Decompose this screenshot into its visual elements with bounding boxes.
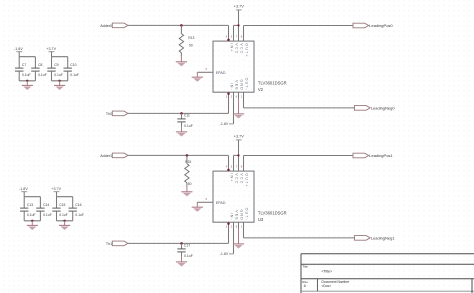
svg-text:TLV3601DSGR: TLV3601DSGR	[258, 210, 287, 215]
svg-text:0.1uF: 0.1uF	[54, 73, 63, 77]
svg-text:LeadingPos1: LeadingPos1	[369, 153, 393, 158]
svg-text:-1.8V: -1.8V	[19, 187, 28, 191]
svg-text:0.1uF: 0.1uF	[27, 213, 36, 217]
svg-text:-1.8V: -1.8V	[220, 252, 229, 256]
svg-text:0.1uF: 0.1uF	[43, 213, 52, 217]
svg-text:C16: C16	[75, 203, 81, 207]
svg-text:0.1uF: 0.1uF	[38, 73, 47, 77]
svg-text:OUT-: OUT-	[245, 208, 249, 221]
svg-text:Title: Title	[302, 265, 308, 269]
svg-text:EPAD: EPAD	[216, 71, 226, 75]
svg-text:C15: C15	[59, 203, 65, 207]
svg-text:LeadingNeg1: LeadingNeg1	[371, 235, 396, 240]
svg-text:IN+: IN+	[230, 43, 234, 52]
svg-text:C8: C8	[38, 63, 42, 67]
svg-text:0.1uF: 0.1uF	[70, 73, 79, 77]
svg-text:U3: U3	[258, 217, 264, 222]
svg-text:OUT+: OUT+	[245, 43, 249, 58]
svg-text:-1.8V: -1.8V	[14, 47, 23, 51]
svg-text:VCC: VCC	[235, 173, 239, 184]
svg-text:0.1uF: 0.1uF	[59, 213, 68, 217]
svg-text:<Title>: <Title>	[322, 270, 333, 274]
svg-text:+3.7V: +3.7V	[46, 47, 56, 51]
svg-text:50: 50	[188, 182, 192, 186]
svg-text:Adder0: Adder0	[100, 24, 112, 28]
svg-text:VEE: VEE	[235, 210, 239, 221]
svg-text:+3.7V: +3.7V	[51, 187, 61, 191]
svg-text:GND: GND	[240, 209, 244, 221]
svg-text:Th0: Th0	[106, 112, 112, 116]
svg-text:C17: C17	[184, 244, 190, 248]
svg-text:R13: R13	[188, 36, 194, 40]
svg-text:Adder1: Adder1	[100, 154, 112, 158]
svg-text:LeadingPos0: LeadingPos0	[369, 23, 393, 28]
svg-text:C7: C7	[22, 63, 26, 67]
svg-text:-1.8V: -1.8V	[220, 122, 229, 126]
svg-text:IN-: IN-	[230, 83, 234, 91]
svg-text:V2: V2	[258, 87, 264, 92]
svg-text:C9: C9	[54, 63, 58, 67]
svg-text:Th1: Th1	[106, 242, 112, 246]
svg-text:VCC: VCC	[240, 43, 244, 54]
svg-text:LeadingNeg0: LeadingNeg0	[371, 105, 396, 110]
svg-text:0.1uF: 0.1uF	[75, 213, 84, 217]
svg-text:50: 50	[189, 44, 193, 48]
svg-text:<Doc>: <Doc>	[322, 284, 332, 288]
svg-text:C13: C13	[27, 203, 33, 207]
svg-text:VCC: VCC	[235, 43, 239, 54]
svg-text:IN+: IN+	[230, 173, 234, 182]
svg-text:C10: C10	[70, 63, 76, 67]
svg-text:0.1uF: 0.1uF	[184, 124, 193, 128]
svg-text:VCC: VCC	[240, 173, 244, 184]
svg-text:OUT+: OUT+	[245, 173, 249, 188]
svg-text:+3.7V: +3.7V	[234, 135, 244, 139]
svg-text:GND: GND	[240, 79, 244, 91]
svg-text:R15: R15	[185, 160, 191, 164]
svg-text:EPAD: EPAD	[216, 201, 226, 205]
svg-text:OUT-: OUT-	[245, 78, 249, 91]
svg-text:VEE: VEE	[235, 80, 239, 91]
svg-text:TLV3601DSGR: TLV3601DSGR	[258, 80, 287, 85]
svg-text:C14: C14	[43, 203, 49, 207]
svg-text:IN-: IN-	[230, 213, 234, 221]
svg-text:+3.7V: +3.7V	[234, 5, 244, 9]
svg-text:0.1uF: 0.1uF	[22, 73, 31, 77]
svg-text:C11: C11	[184, 114, 190, 118]
svg-text:0.1uF: 0.1uF	[184, 254, 193, 258]
